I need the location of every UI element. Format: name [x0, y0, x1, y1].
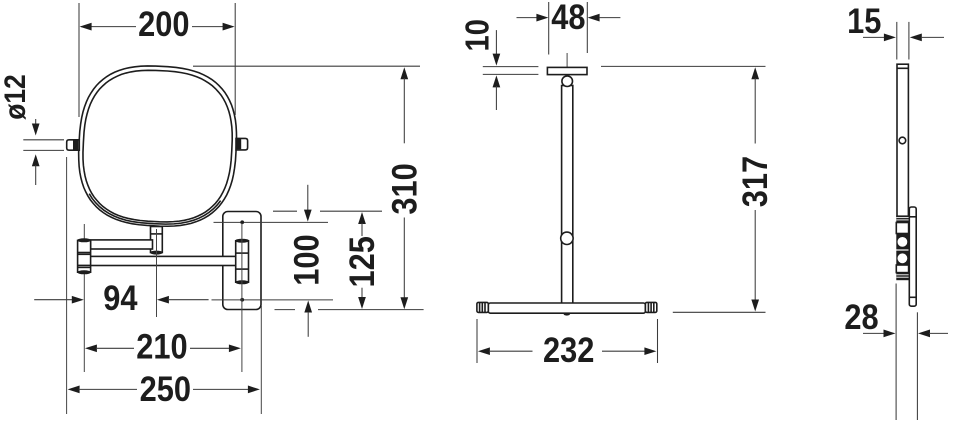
- svg-text:15: 15: [847, 1, 881, 40]
- svg-text:10: 10: [459, 19, 496, 51]
- svg-text:210: 210: [136, 327, 187, 366]
- svg-text:310: 310: [384, 163, 423, 214]
- svg-text:232: 232: [543, 330, 594, 369]
- svg-text:94: 94: [103, 278, 138, 317]
- svg-text:48: 48: [551, 0, 585, 36]
- svg-text:ø12: ø12: [0, 74, 32, 119]
- svg-text:317: 317: [735, 156, 774, 207]
- svg-text:250: 250: [140, 369, 191, 408]
- svg-text:200: 200: [138, 4, 189, 43]
- svg-text:100: 100: [287, 234, 326, 285]
- svg-text:125: 125: [342, 236, 381, 287]
- svg-text:28: 28: [844, 297, 878, 336]
